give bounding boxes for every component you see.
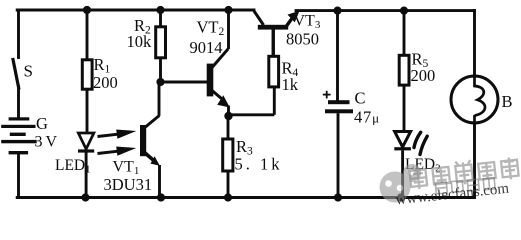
svg-text:3V: 3V xyxy=(35,134,61,151)
resistor R3 xyxy=(223,116,233,198)
wire top rail left segment xyxy=(17,9,254,12)
wire VT2 base xyxy=(161,81,208,84)
svg-text:S: S xyxy=(24,62,33,81)
resistor R5 xyxy=(399,11,409,132)
node dot C top xyxy=(333,7,341,15)
transistor VT3 xyxy=(254,11,300,57)
svg-text:C: C xyxy=(355,89,366,108)
node dot VT2 collector top xyxy=(224,6,232,14)
wire from node down to VT1 collector xyxy=(145,84,160,128)
LED1 diode xyxy=(78,133,94,198)
wire top rail right segment xyxy=(296,9,475,12)
svg-text:B: B xyxy=(502,92,513,111)
phototransistor VT1 xyxy=(140,125,160,198)
svg-text:8050: 8050 xyxy=(286,30,319,49)
LED2 light ray 2 xyxy=(420,136,427,154)
svg-text:3DU31: 3DU31 xyxy=(104,175,153,194)
svg-text:10k: 10k xyxy=(127,32,153,51)
transistor VT2 xyxy=(207,10,230,116)
light arrow 1 into VT1 xyxy=(98,130,137,139)
wire right drop to lamp B xyxy=(473,11,476,77)
resistor R4 xyxy=(269,30,279,87)
lamp B xyxy=(451,76,498,198)
wire node to R4 bottom xyxy=(229,87,275,115)
watermark logo circles xyxy=(380,164,422,203)
LED2 light ray 1 xyxy=(414,132,421,147)
svg-text:9014: 9014 xyxy=(190,38,223,57)
LED2 diode xyxy=(394,132,411,198)
wire battery to bottom rail xyxy=(17,153,20,198)
node dot LED2 bottom xyxy=(397,193,405,201)
node dot C bottom xyxy=(334,193,342,201)
svg-text:200: 200 xyxy=(411,66,436,85)
watermark large character row xyxy=(409,155,519,190)
wire switch to battery xyxy=(17,87,20,119)
svg-text:47μ: 47μ xyxy=(354,108,380,127)
node dot VT2 emitter junction xyxy=(224,112,232,120)
resistor R2 xyxy=(156,10,166,82)
node dot LED1 bottom xyxy=(81,193,89,201)
switch S blade xyxy=(13,60,19,89)
wire left branch from top rail to switch xyxy=(17,10,20,58)
node dot R3 bottom xyxy=(224,193,232,201)
wire bottom rail xyxy=(17,196,474,199)
node dot R2 bottom xyxy=(156,78,164,86)
light arrow 2 into VT1 xyxy=(98,147,137,156)
svg-text:5. 1k: 5. 1k xyxy=(235,155,283,174)
node dot R1 top xyxy=(83,6,91,14)
watermark small dark character row xyxy=(435,178,495,194)
svg-text:G: G xyxy=(36,114,48,133)
svg-text:200: 200 xyxy=(93,73,118,92)
battery G plates xyxy=(1,117,37,154)
svg-text:1k: 1k xyxy=(282,75,299,94)
node dot VT1 emitter bottom xyxy=(157,193,165,201)
resistor R1 xyxy=(82,10,92,133)
node dot R2 top xyxy=(156,6,164,14)
capacitor C xyxy=(323,11,353,198)
node dot R5 top xyxy=(400,7,408,15)
